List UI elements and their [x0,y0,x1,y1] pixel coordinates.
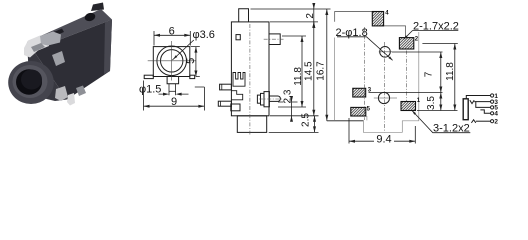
svg-text:4: 4 [494,111,498,118]
side view top right pin [269,34,280,45]
photo top nub [91,3,104,12]
side view square hole [236,35,240,40]
dimension 2.3 [291,97,293,120]
top view right wing [190,75,195,78]
top view outer circle [157,46,187,76]
svg-text:2.5: 2.5 [300,113,311,127]
side view inner contact step [231,91,242,100]
side view extension lines [251,9,364,132]
wire pin4 [480,110,490,113]
photo barrel outer [8,61,54,104]
dimension 5 right [191,47,200,77]
svg-text:2.3: 2.3 [282,89,293,103]
side view bottom right bolt washer [261,93,265,105]
dimension 16.7 [326,9,328,121]
svg-text:9.4: 9.4 [376,133,391,145]
svg-text:16.7: 16.7 [316,61,327,81]
side view hanging tab left [231,104,240,111]
hole crosshairs [374,52,397,98]
dimension 2 (protrusion) [313,4,315,27]
footprint extension lines [349,44,458,144]
svg-text:6: 6 [169,25,175,37]
side view bottom right bolt shaft [269,96,280,101]
svg-text:φ1.5: φ1.5 [139,83,161,95]
svg-text:φ3.6: φ3.6 [193,29,215,41]
wire pin1 [466,96,490,100]
top view inner circle phi3.6 [161,50,183,72]
side view barrel [237,116,266,133]
top view crosshair [148,41,196,81]
pad 1 [401,102,416,111]
photo mid metal piece [52,51,65,66]
dimension 11.8 footprint [454,44,456,111]
svg-text:11.8: 11.8 [445,62,456,81]
photo bottom legs [55,86,68,101]
svg-text:2: 2 [305,13,316,19]
photo body right edge shade [104,20,112,75]
dimension 6 top [154,31,190,46]
dimension 11.8 side [301,36,303,107]
dimension 7 [440,52,442,93]
photo body lower-left fill behind barrel [27,42,67,101]
photo of 3.5mm SMD jack [8,3,112,106]
pad 2 [399,38,413,49]
side view inner contact crown [233,73,245,87]
dimension 14.5 [313,22,315,116]
wire pin5 [476,102,491,108]
side view bottom right bolt cap [257,95,260,103]
side view top protrusion [239,9,249,22]
schematic terminal circles [491,94,494,123]
svg-text:3.5: 3.5 [426,96,437,110]
side view left top pin [220,84,232,90]
footprint outline [335,32,419,132]
top view phi1.5 pin [169,84,176,95]
svg-text:7: 7 [424,71,435,77]
schematic plug [463,99,468,120]
side view left bottom pin [218,101,231,106]
photo barrel hole [16,69,42,94]
top view left wing [144,75,153,78]
footprint label chain lines [335,12,406,38]
svg-text:11.8: 11.8 [293,67,304,86]
side view bottom right bolt flange [264,92,269,107]
side view body [231,22,269,116]
dimension 9.4 [349,140,415,142]
hole phi1.8 upper [380,47,391,58]
photo top hole [84,12,97,23]
side view centerline [249,24,251,135]
top view bottom tab [167,77,179,84]
svg-text:9: 9 [171,96,177,108]
wire pin2 contact [471,120,475,123]
pad 5 [351,107,366,116]
photo top slot [49,29,64,38]
svg-text:5: 5 [185,58,197,64]
wire pin3 contact [470,100,474,103]
hole phi1.8 lower [378,92,389,103]
top view body [153,47,190,77]
side view pin centerlines [259,39,284,99]
pad 4 [372,12,383,26]
dimension 2.5 barrel [314,116,316,133]
footprint centerlines [364,27,406,133]
photo body front face [33,20,112,100]
svg-text:2: 2 [494,119,498,126]
dimension 9 bottom [144,81,205,111]
photo metal switch clip [24,36,49,58]
dimension 3.5 [440,93,442,111]
pad 3 [353,88,366,97]
svg-text:14.5: 14.5 [304,61,315,81]
photo body top face [27,9,112,50]
schematic pin numbers [494,93,498,126]
